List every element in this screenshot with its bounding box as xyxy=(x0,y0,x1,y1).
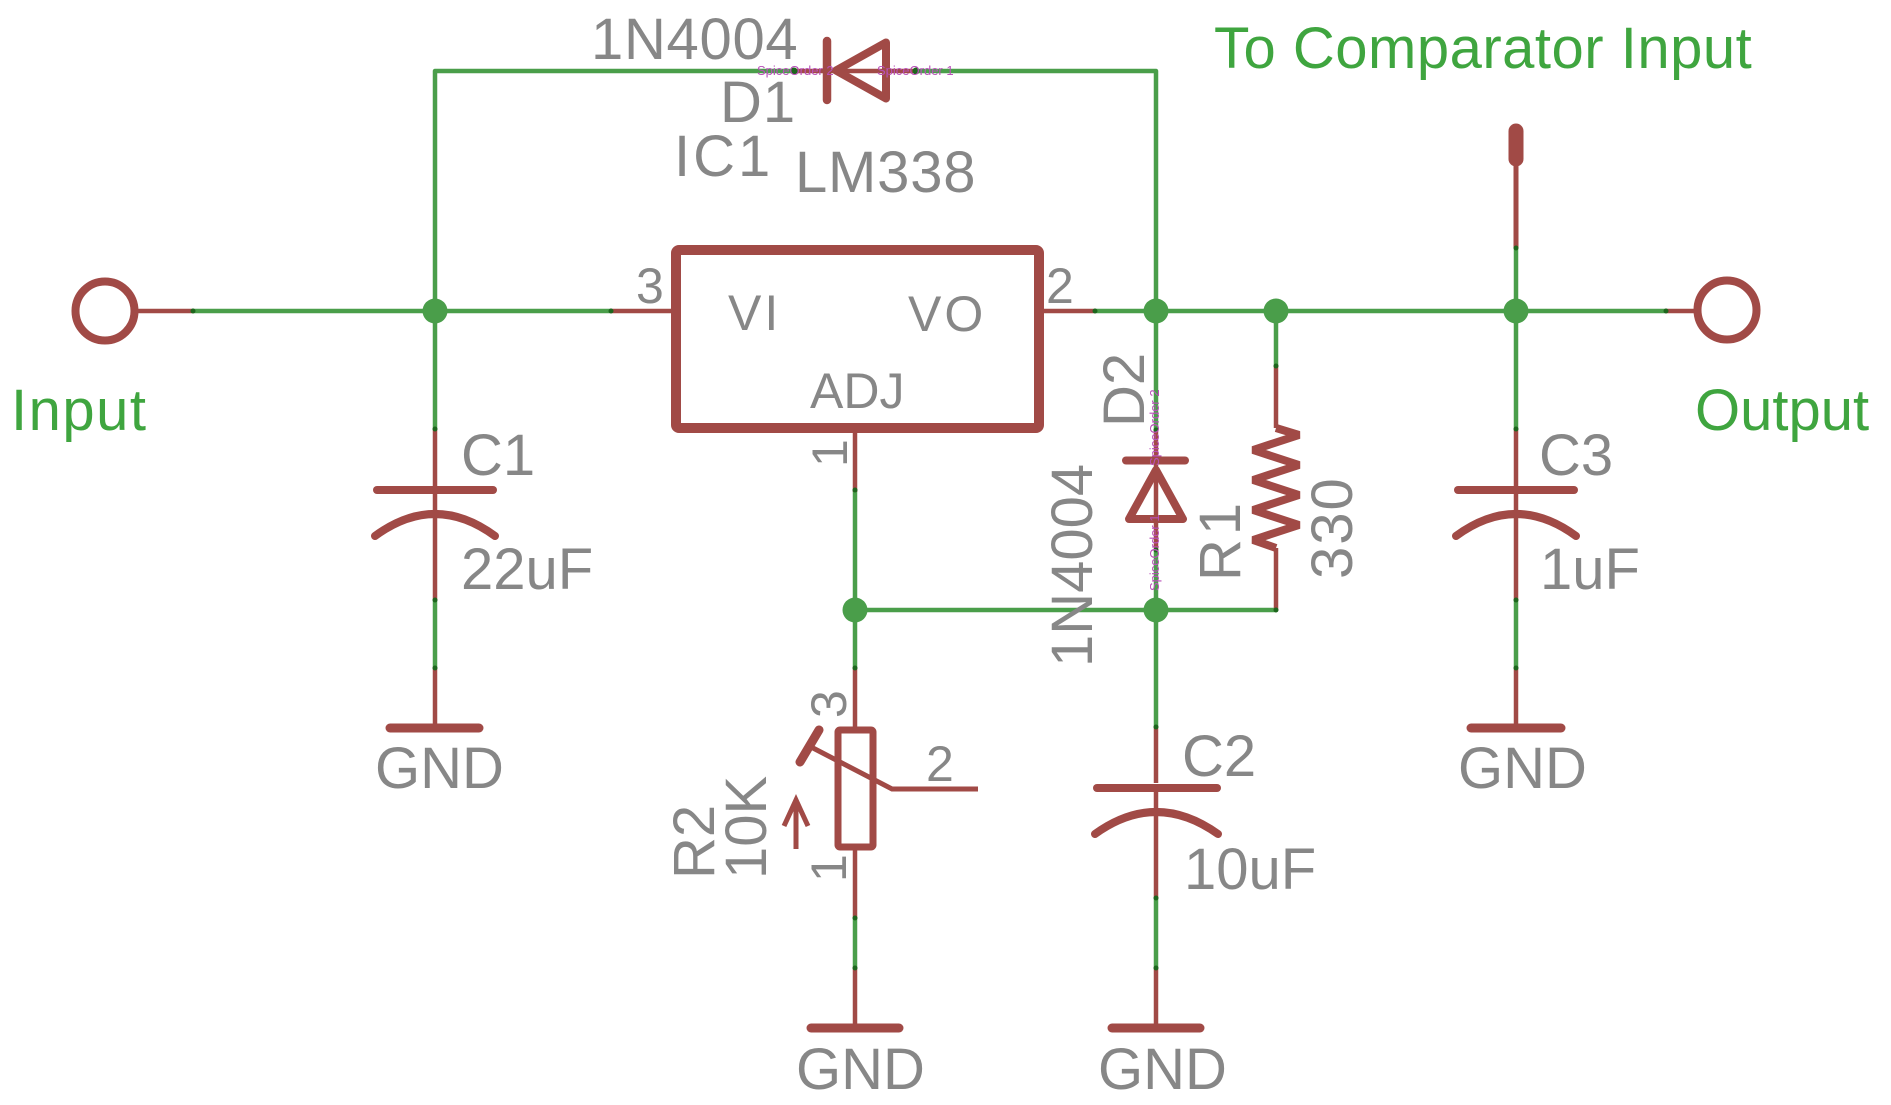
ground bar R2 xyxy=(811,1024,899,1033)
junction C3 tap xyxy=(1504,299,1529,324)
pin gnd C3 xyxy=(1514,668,1519,724)
pin VI xyxy=(611,309,676,314)
wire C2 top xyxy=(1154,610,1159,727)
svg-text:1uF: 1uF xyxy=(1540,537,1640,602)
svg-text:GND: GND xyxy=(1458,736,1587,801)
node dot output port xyxy=(1664,309,1669,314)
pin C1 bottom xyxy=(433,494,438,600)
pin D1 anode xyxy=(889,69,918,74)
junction ADJ C2 xyxy=(1144,598,1169,623)
junction ADJ pot xyxy=(843,598,868,623)
pin C1 top xyxy=(433,429,438,486)
wire R1 top xyxy=(1274,311,1279,366)
pin D1 through xyxy=(832,69,885,74)
node dot input port xyxy=(191,309,196,314)
wire D2 top xyxy=(1154,311,1159,430)
potentiometer R2 adjust arrow xyxy=(784,800,808,849)
wire C2 bottom to gnd xyxy=(1154,898,1159,968)
pin comparator antenna line xyxy=(1514,166,1519,248)
svg-text:10uF: 10uF xyxy=(1184,837,1316,902)
node dot gnd C3 xyxy=(1514,666,1519,671)
node dot D2 anode xyxy=(1154,548,1159,553)
node dot D2 cathode xyxy=(1154,428,1159,433)
diode D2 cathode bar xyxy=(1126,457,1185,465)
output port circle xyxy=(1698,281,1757,340)
node dot D1 anode xyxy=(913,68,920,75)
pin input stub xyxy=(138,309,193,314)
wire pot top xyxy=(853,610,858,668)
potentiometer R2 wiper arrowhead slash xyxy=(800,730,819,762)
node dot ADJ pin xyxy=(853,488,858,493)
svg-text:SpiceOrder 2: SpiceOrder 2 xyxy=(1147,389,1162,466)
pin D2 cathode xyxy=(1154,430,1159,464)
pin R1 bottom xyxy=(1274,548,1279,610)
pin D1 cathode xyxy=(794,69,832,74)
junction input node xyxy=(423,299,448,324)
svg-text:C3: C3 xyxy=(1539,423,1613,488)
potentiometer R2 body xyxy=(838,730,873,847)
capacitor C2 top plate xyxy=(1097,784,1217,792)
svg-text:2: 2 xyxy=(1046,258,1074,314)
diode D2 triangle xyxy=(1129,470,1183,519)
svg-text:1N4004: 1N4004 xyxy=(1040,464,1105,667)
potentiometer R2 wiper diagonal xyxy=(813,748,978,789)
svg-text:10K: 10K xyxy=(714,775,779,879)
resistor R1 zigzag xyxy=(1253,428,1299,548)
wire C3 top xyxy=(1514,311,1519,429)
svg-text:Input: Input xyxy=(11,378,148,443)
pin VO xyxy=(1039,309,1095,314)
node dot VI pin xyxy=(609,309,614,314)
capacitor C1 bottom plate arc xyxy=(375,514,495,536)
node dot C1 top xyxy=(433,427,438,432)
svg-text:Output: Output xyxy=(1695,378,1869,443)
node dot C2 bottom xyxy=(1154,896,1159,901)
node dot R1 top xyxy=(1274,364,1279,369)
node dot C3 top xyxy=(1514,427,1519,432)
pin C3 top xyxy=(1514,429,1519,486)
node dot D1 cathode xyxy=(791,68,798,75)
wire C1 top xyxy=(433,311,438,429)
svg-text:22uF: 22uF xyxy=(461,537,593,602)
node dot gnd C1 xyxy=(433,666,438,671)
svg-text:1: 1 xyxy=(802,439,858,467)
pin C2 bottom xyxy=(1154,791,1159,898)
wire top net left xyxy=(435,71,794,311)
pin C3 bottom xyxy=(1514,494,1519,600)
pin gnd C1 xyxy=(433,668,438,724)
junction VO D2 xyxy=(1144,299,1169,324)
pin D2 anode through xyxy=(1154,464,1159,550)
node dot comparator tap xyxy=(1514,246,1519,251)
pin output stub xyxy=(1666,309,1694,314)
node dot gnd C2 xyxy=(1154,966,1159,971)
op-amp IC1 LM338 box xyxy=(676,250,1039,428)
node dot C2 top xyxy=(1154,725,1159,730)
junction R1 top xyxy=(1264,299,1289,324)
svg-text:GND: GND xyxy=(375,736,504,801)
node dot VO pin xyxy=(1093,309,1098,314)
svg-text:GND: GND xyxy=(796,1037,925,1102)
svg-text:ADJ: ADJ xyxy=(810,363,904,419)
svg-text:SpiceOrder 1: SpiceOrder 1 xyxy=(1147,514,1162,591)
wire input net xyxy=(193,309,611,314)
node dot C1 bottom xyxy=(433,598,438,603)
pin gnd R2 xyxy=(853,968,858,1024)
pin gnd C2 xyxy=(1154,968,1159,1024)
pin ADJ xyxy=(853,433,858,492)
capacitor C3 bottom plate arc xyxy=(1456,514,1576,536)
capacitor C2 bottom plate arc xyxy=(1095,812,1218,834)
node dot gnd R2 xyxy=(853,966,858,971)
node dot pot pin3 xyxy=(853,666,858,671)
svg-text:1: 1 xyxy=(801,854,857,882)
capacitor C1 top plate xyxy=(377,486,493,494)
svg-text:VI: VI xyxy=(728,285,781,341)
wire comparator tap xyxy=(1514,248,1519,311)
wire D2 bottom xyxy=(1154,551,1159,610)
svg-text:3: 3 xyxy=(636,258,664,314)
node dot pot pin1 xyxy=(853,916,858,921)
pin pot top xyxy=(853,668,858,730)
svg-text:SpiceOrder 1: SpiceOrder 1 xyxy=(877,63,954,78)
svg-text:IC1: IC1 xyxy=(674,124,773,189)
svg-text:SpiceOrder 2: SpiceOrder 2 xyxy=(757,63,834,78)
wire pot bottom to gnd xyxy=(853,918,858,968)
diode D1 triangle xyxy=(836,43,886,99)
pin C2 top xyxy=(1154,727,1159,783)
node dot R1 bottom xyxy=(1274,608,1279,613)
svg-text:VO: VO xyxy=(908,286,986,342)
ground bar C1 xyxy=(390,724,479,733)
ground bar C2 xyxy=(1112,1024,1200,1033)
diode D1 cathode bar xyxy=(823,41,832,100)
svg-text:3: 3 xyxy=(801,690,857,718)
wire top net right xyxy=(916,71,1156,311)
wire C3 bottom to gnd xyxy=(1514,600,1519,668)
svg-text:C1: C1 xyxy=(461,423,535,488)
pin pot bottom xyxy=(853,848,858,918)
ground bar C3 xyxy=(1471,724,1561,733)
svg-text:LM338: LM338 xyxy=(795,140,976,205)
wire adj vertical xyxy=(853,490,858,610)
input port circle xyxy=(76,282,135,341)
svg-text:2: 2 xyxy=(926,736,954,792)
wire adj horizontal xyxy=(855,608,1276,613)
svg-text:GND: GND xyxy=(1098,1037,1227,1102)
wire C1 bottom to gnd xyxy=(433,600,438,668)
pin R1 top xyxy=(1274,366,1279,428)
node dot C3 bottom xyxy=(1514,598,1519,603)
svg-text:To Comparator Input: To Comparator Input xyxy=(1214,16,1752,81)
wire output net xyxy=(1095,309,1666,314)
svg-text:R1: R1 xyxy=(1188,499,1253,581)
pin comparator antenna pill xyxy=(1509,131,1524,159)
capacitor C3 top plate xyxy=(1458,486,1574,494)
svg-text:C2: C2 xyxy=(1182,724,1256,789)
svg-text:330: 330 xyxy=(1300,476,1365,579)
